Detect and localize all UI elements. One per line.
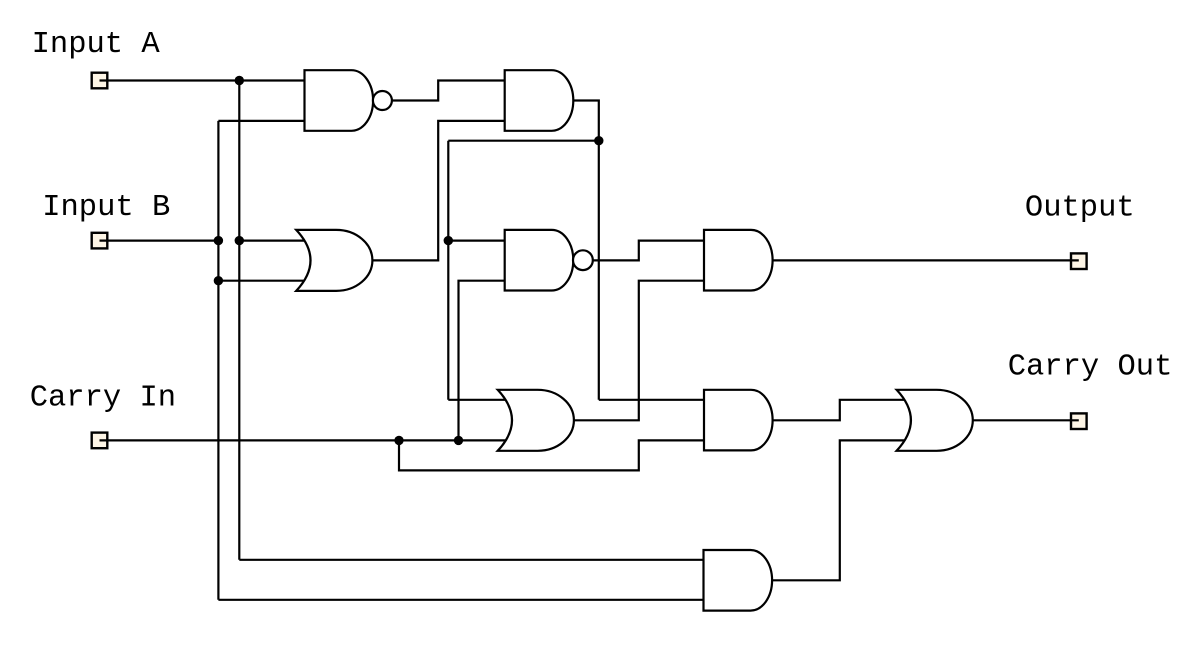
wire: Carry In underpass below OR2: [399, 440, 704, 470]
wire: net P to OR2 input 1: [448, 399, 510, 401]
svg-text:Carry In: Carry In: [30, 382, 176, 416]
wire: NAND1 output jog to AND2 input 1: [392, 81, 505, 101]
wire: net Carry In pin to OR2 input 2: [100, 439, 511, 441]
junction dot: node P corner: [594, 136, 603, 145]
svg-text:Carry Out: Carry Out: [1008, 351, 1173, 385]
junction dot: B vertical to OR1 input 2: [214, 276, 223, 285]
svg-text:Input B: Input B: [42, 191, 170, 225]
gate OR3 (carry out OR gate): [897, 390, 973, 451]
gate OR2 (P OR Cin): [498, 390, 574, 451]
NAND2 inversion bubble: [573, 250, 593, 270]
junction dot: Carry In underpass tap: [394, 436, 403, 445]
wire: AND3 output to Output pin: [773, 259, 1079, 261]
input pin B: [92, 233, 108, 249]
svg-text:Input A: Input A: [32, 28, 161, 62]
gate AND3 (sum output gate): [704, 230, 773, 291]
junction dot: Carry In riser tap: [454, 436, 463, 445]
wire: net A vertical drop x=239.3: [238, 81, 240, 560]
wire: net P to AND4 input 1: [599, 399, 704, 401]
svg-text:Output: Output: [1025, 192, 1135, 226]
gate NAND1 body (Input A NAND Input B): [305, 70, 374, 131]
wire: net A stub to OR1 input 1: [239, 240, 308, 242]
wire: net B to NAND1 input 2: [218, 120, 304, 122]
junction dot: A vertical to OR1 input 1: [235, 236, 244, 245]
wire: net P riser x=448.3: [447, 141, 449, 400]
wire: OR3 output to Carry Out pin: [973, 419, 1079, 421]
output pin Carry Out: [1071, 413, 1087, 429]
wire: net P to NAND2 input 1: [448, 240, 504, 242]
wire: NAND2 output jog to AND3 input 1: [592, 241, 704, 261]
wire: AND4 output jog to OR3 input 1: [773, 400, 908, 421]
junction dot: A wire at x=239.3: [235, 76, 244, 85]
wire: net A horizontal pin to NAND1 input 1: [100, 79, 305, 81]
wire: node P horizontal y=140.7: [448, 140, 599, 142]
wire: net A to AND5 input 1: [239, 559, 704, 561]
wire: net B stub to OR1 input 2: [218, 280, 308, 282]
wire: OR1 output riser to AND2 input 2: [372, 121, 504, 261]
wire: net B to AND5 input 2: [218, 599, 704, 601]
wire: net P riser x=598.8: [598, 141, 600, 400]
wire: net B vertical x=218.4: [217, 121, 219, 600]
wire: Carry In riser to NAND2 input 2: [459, 281, 505, 441]
gate AND5 (A AND B carry gate): [704, 550, 773, 611]
input pin Carry In: [92, 433, 108, 449]
NAND1 inversion bubble: [373, 91, 392, 110]
wire: net B pin to vertical: [100, 240, 219, 242]
output pin Output: [1071, 253, 1087, 269]
junction dot: B pin wire at x=218.4: [214, 236, 223, 245]
gate OR1 (Input A OR Input B): [296, 230, 372, 291]
input pin A: [92, 73, 108, 89]
junction dot: P riser to NAND2 input 1: [444, 236, 453, 245]
gate AND2 body (XOR first stage output): [505, 70, 574, 131]
gate AND4 (P AND Cin): [704, 390, 773, 451]
wire: OR2 output riser to AND3 input 2: [574, 281, 704, 421]
wire: AND2 output drop to node P: [573, 101, 599, 141]
gate NAND2 body (P NAND Cin): [505, 230, 574, 291]
wire: AND5 output riser to OR3 input 2: [772, 440, 908, 580]
